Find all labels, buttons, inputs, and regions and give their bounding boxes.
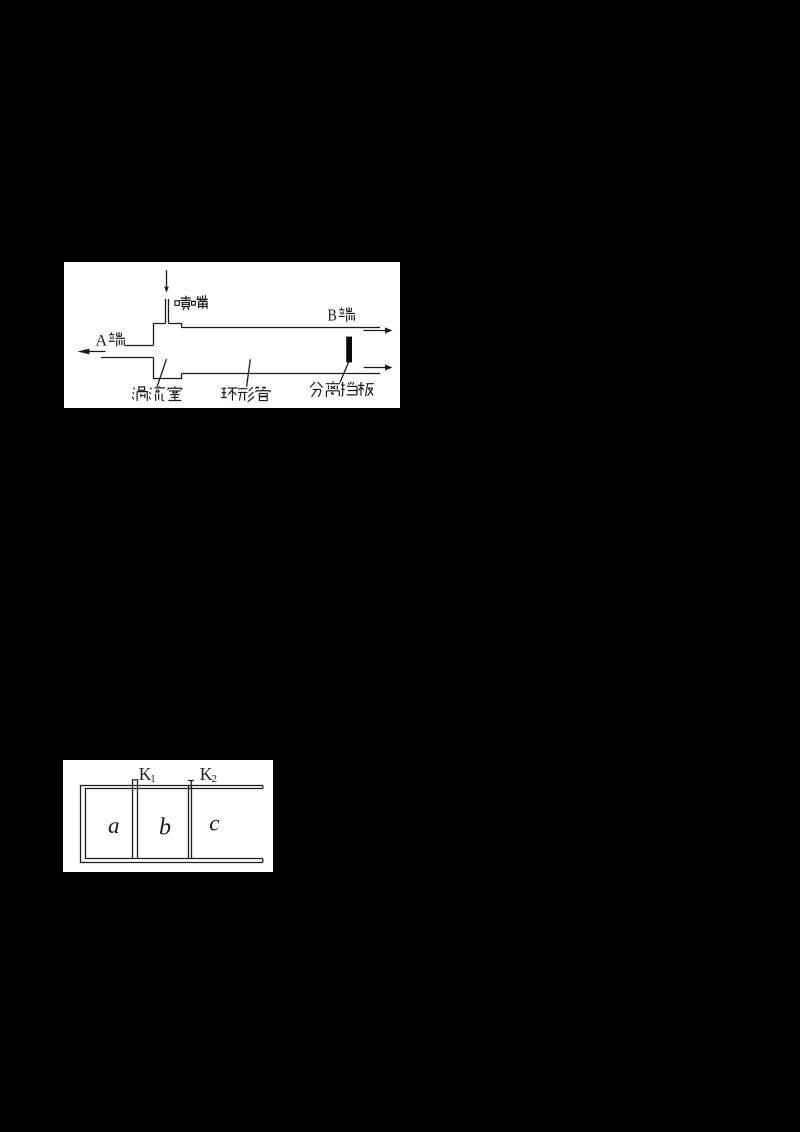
svg-text:c: c	[209, 810, 219, 835]
label 喷嘴	[175, 295, 208, 310]
baffle leader line	[340, 362, 349, 382]
label B端	[328, 306, 337, 325]
svg-text:B: B	[328, 306, 337, 325]
annular tube top wall	[182, 327, 381, 329]
label 分离挡板	[310, 381, 374, 397]
A outlet bottom line	[101, 357, 154, 359]
vortex chamber leader line	[157, 359, 167, 387]
svg-text:a: a	[108, 813, 120, 838]
svg-text:2: 2	[212, 773, 218, 785]
container outer wall	[81, 786, 263, 863]
nozzle tube	[166, 299, 169, 324]
annular tube leader line	[247, 359, 251, 386]
label 涡流室	[132, 386, 181, 401]
partition b/c	[189, 785, 192, 859]
B top arrow	[364, 330, 386, 332]
svg-text:A: A	[96, 333, 108, 350]
A arrow	[89, 351, 106, 353]
A outlet top line	[125, 345, 154, 347]
right end caps	[262, 786, 264, 863]
B bottom arrow	[364, 367, 386, 369]
svg-text:b: b	[159, 815, 171, 841]
separation baffle	[346, 337, 352, 363]
inlet arrow	[166, 270, 168, 287]
container inner wall	[86, 789, 263, 859]
svg-text:1: 1	[150, 773, 156, 785]
annular tube bottom wall	[182, 373, 381, 375]
partition K1 tube	[133, 780, 138, 859]
label 环形管	[221, 387, 270, 402]
diagram panel 1: vortex tube	[64, 262, 400, 408]
vortex chamber	[154, 324, 182, 379]
diagram panel 2: three-chamber container with valves	[63, 760, 273, 872]
valve K2 symbol	[188, 781, 194, 790]
